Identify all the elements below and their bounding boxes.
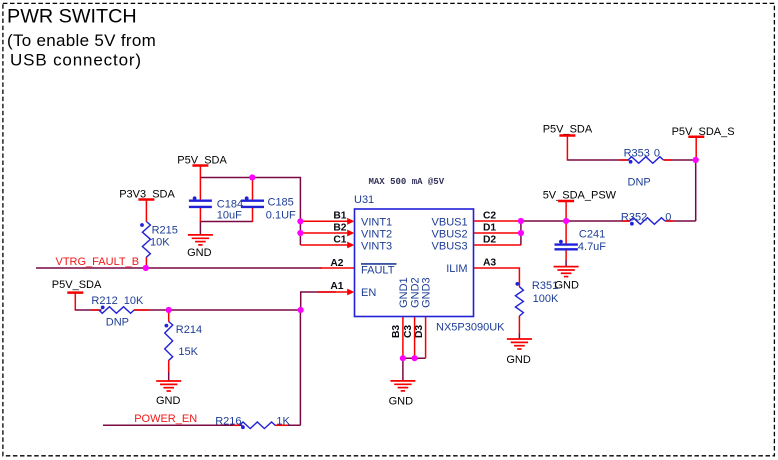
junction node P5V_SDA_S xyxy=(693,157,699,163)
svg-text:5V_SDA_PSW: 5V_SDA_PSW xyxy=(543,190,617,202)
resistor R353 xyxy=(624,147,664,188)
power symbol P5V_SDA (left) xyxy=(52,279,102,310)
svg-text:B2: B2 xyxy=(333,223,346,234)
svg-text:FAULT: FAULT xyxy=(361,264,395,276)
svg-text:GND: GND xyxy=(554,279,579,291)
junction node C185 top xyxy=(249,174,255,180)
svg-text:4.7uF: 4.7uF xyxy=(578,241,606,253)
svg-text:(To enable 5V from: (To enable 5V from xyxy=(7,31,156,50)
ground under C184 xyxy=(187,235,213,259)
wire stub R215 leads xyxy=(145,257,147,268)
svg-text:VINT2: VINT2 xyxy=(361,229,392,241)
svg-text:0.1UF: 0.1UF xyxy=(266,209,296,221)
wire EN riser xyxy=(301,292,336,310)
svg-text:VINT1: VINT1 xyxy=(361,217,392,229)
svg-text:GND3: GND3 xyxy=(421,277,433,308)
wire C2 D1 D2 vertical xyxy=(520,221,522,245)
svg-text:C241: C241 xyxy=(579,229,605,241)
power symbol P3V3_SDA xyxy=(119,189,175,222)
svg-text:GND: GND xyxy=(187,247,212,259)
svg-text:D3: D3 xyxy=(414,325,425,338)
junction node C2 xyxy=(518,218,524,224)
pin stub A2 xyxy=(320,267,354,269)
svg-text:VBUS3: VBUS3 xyxy=(432,241,468,253)
capacitor C241 xyxy=(555,229,607,254)
svg-text:10uF: 10uF xyxy=(217,209,242,221)
wire stub R214 leads xyxy=(168,310,170,322)
svg-text:MAX 500 mA @5V: MAX 500 mA @5V xyxy=(369,177,445,187)
svg-text:A3: A3 xyxy=(483,258,496,269)
capacitor C184 xyxy=(189,196,243,221)
power symbol P5V_SDA (right) xyxy=(543,123,593,160)
ground under R214 xyxy=(156,381,181,407)
svg-text:NX5P3090UK: NX5P3090UK xyxy=(436,322,505,334)
svg-text:GND1: GND1 xyxy=(398,277,410,308)
wire top rail P5V_SDA to chip xyxy=(200,178,300,246)
pin stub D2 xyxy=(474,244,521,246)
junction node B1 xyxy=(297,218,303,224)
wire stub R351 leads xyxy=(474,268,520,287)
wire stub R353 leads xyxy=(620,159,628,161)
svg-text:P5V_SDA: P5V_SDA xyxy=(52,279,102,291)
wire VTRG_FAULT_B horizontal xyxy=(36,267,322,269)
pin stub A1 xyxy=(318,291,348,293)
svg-text:VTRG_FAULT_B: VTRG_FAULT_B xyxy=(56,256,140,268)
resistor R214 xyxy=(165,322,203,361)
ground under chip xyxy=(389,381,416,407)
wire stub R216 leads xyxy=(233,424,240,426)
power symbol 5V_SDA_PSW xyxy=(543,190,617,222)
wire C241 gnd stem xyxy=(565,260,567,267)
svg-text:PWR SWITCH: PWR SWITCH xyxy=(7,5,137,27)
svg-text:C1: C1 xyxy=(333,235,346,246)
svg-text:POWER_EN: POWER_EN xyxy=(134,413,197,425)
pin stub D1 xyxy=(474,232,521,234)
wire C184 ground stem xyxy=(199,222,201,236)
wire POWER_EN run xyxy=(103,424,242,426)
resistor R215 xyxy=(140,222,178,258)
junction node chip gnd C3 xyxy=(412,355,418,361)
junction node EN xyxy=(298,307,304,313)
pin stub C1 xyxy=(301,244,349,246)
junction node R215 bottom xyxy=(143,265,149,271)
junction node B2 xyxy=(297,230,303,236)
svg-text:D1: D1 xyxy=(483,223,496,234)
junction node 5V_SDA_PSW xyxy=(563,218,569,224)
pin stub B1 xyxy=(301,220,349,222)
svg-text:B1: B1 xyxy=(333,211,346,222)
junction node chip gnd B3 xyxy=(400,355,406,361)
op-amp U31 body xyxy=(355,209,474,317)
svg-text:VBUS2: VBUS2 xyxy=(432,229,468,241)
resistor R352 xyxy=(621,212,672,226)
wire R212 run to EN junction xyxy=(75,309,101,311)
svg-text:1K: 1K xyxy=(276,416,290,428)
svg-text:0: 0 xyxy=(654,147,660,159)
wire stub R352 leads xyxy=(622,220,630,222)
svg-text:EN: EN xyxy=(361,287,376,299)
svg-text:15K: 15K xyxy=(178,346,198,358)
ground under R351 xyxy=(506,339,532,366)
svg-text:R352: R352 xyxy=(621,212,647,224)
svg-text:DNP: DNP xyxy=(106,317,129,329)
resistor R351 xyxy=(515,280,559,316)
power symbol P5V_SDA (top mid) xyxy=(177,154,227,178)
resistor R212 xyxy=(91,295,144,329)
junction node D1 xyxy=(518,230,524,236)
svg-text:P5V_SDA: P5V_SDA xyxy=(543,123,593,135)
svg-text:A2: A2 xyxy=(330,258,343,269)
wire R352 run xyxy=(521,220,630,222)
svg-text:ILIM: ILIM xyxy=(446,263,467,275)
svg-text:R353: R353 xyxy=(624,147,650,159)
svg-text:D2: D2 xyxy=(483,235,496,246)
power symbol P5V_SDA_S xyxy=(672,126,735,161)
svg-text:VINT3: VINT3 xyxy=(361,241,392,253)
svg-text:GND: GND xyxy=(389,395,414,407)
svg-text:GND: GND xyxy=(506,354,531,366)
svg-text:R216: R216 xyxy=(215,416,241,428)
svg-text:DNP: DNP xyxy=(628,176,651,188)
pin stub D3 xyxy=(425,317,427,358)
svg-text:10K: 10K xyxy=(124,295,144,307)
svg-text:100K: 100K xyxy=(533,293,559,305)
resistor R216 xyxy=(215,416,290,429)
wire R214 gnd stem xyxy=(168,371,170,381)
wire stub R212 leads xyxy=(91,309,99,311)
pin stub B3 xyxy=(402,317,404,358)
wire stub C241 leads xyxy=(565,221,567,244)
svg-text:C2: C2 xyxy=(483,210,496,221)
svg-text:USB connector): USB connector) xyxy=(10,51,142,70)
svg-text:GND: GND xyxy=(156,395,181,407)
wire capacitor bottom rail xyxy=(200,221,252,223)
wire stub C184 leads xyxy=(199,178,201,201)
svg-text:0: 0 xyxy=(665,212,671,224)
svg-text:R214: R214 xyxy=(176,324,202,336)
wire P5V_SDA_S vertical xyxy=(695,160,697,221)
pin stub C3 xyxy=(414,317,416,358)
svg-text:C185: C185 xyxy=(268,196,294,208)
pin stub C2 xyxy=(474,220,521,222)
svg-text:R215: R215 xyxy=(152,224,178,236)
pin stub B2 xyxy=(301,232,349,234)
wire chip gnd bus xyxy=(403,358,426,381)
svg-text:10K: 10K xyxy=(150,236,170,248)
ground under C241 xyxy=(554,267,579,292)
svg-text:C3: C3 xyxy=(403,325,414,338)
svg-text:B3: B3 xyxy=(391,325,402,338)
wire R216 riser xyxy=(299,310,301,425)
svg-text:A1: A1 xyxy=(330,281,343,292)
svg-text:R212: R212 xyxy=(91,295,117,307)
wire stub C185 leads xyxy=(252,178,254,201)
capacitor C185 xyxy=(241,196,296,221)
svg-text:VBUS1: VBUS1 xyxy=(432,217,468,229)
svg-text:U31: U31 xyxy=(354,194,374,206)
junction node R212-R214 xyxy=(166,307,172,313)
wire R353 run xyxy=(567,159,629,161)
wire R351 gnd stem xyxy=(518,333,520,339)
